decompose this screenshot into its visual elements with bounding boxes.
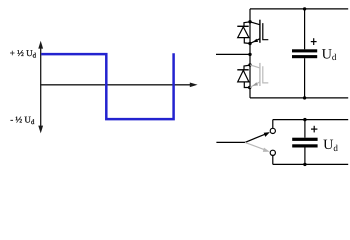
IGBT T1 [250,20,268,44]
square wave [41,53,173,119]
diode D1 [237,22,250,44]
node emitter T2 [248,86,251,89]
wire common lead [216,141,245,143]
node collector T2 [248,63,251,66]
contact circle bottom [270,150,275,155]
wire top rail [250,8,348,10]
contact circle top [270,128,275,133]
wire output lead [216,53,250,55]
wire bottom contact [272,156,274,165]
wire top contact [272,120,274,129]
switch arm black [245,132,270,142]
svg-text:- ½ Ud: - ½ Ud [10,115,35,127]
wire top rail 2 [273,119,348,121]
x-axis [40,83,197,88]
switch arm gray [245,142,270,152]
node cap2 bottom [303,163,306,166]
node collector T1 [248,20,251,23]
y-axis [38,41,43,134]
node cap bottom [303,96,306,99]
svg-text:Ud: Ud [323,137,338,153]
capacitor Ud (top) [292,9,317,98]
wire bottom rail 2 [273,163,348,165]
plus sign bottom [311,126,317,133]
capacitor Ud (bottom) [292,120,317,165]
svg-text:+ ½ Ud: + ½ Ud [10,48,37,60]
wire bottom rail [250,97,348,99]
node cap2 top [303,118,306,121]
svg-text:Ud: Ud [322,47,337,63]
diode D2 [237,65,250,87]
wire left leg [249,9,251,98]
node emitter T1 [248,42,251,45]
IGBT T2 (gray) [250,63,269,88]
plus sign top [311,38,317,45]
node cap top [303,7,306,10]
node output [248,53,251,56]
